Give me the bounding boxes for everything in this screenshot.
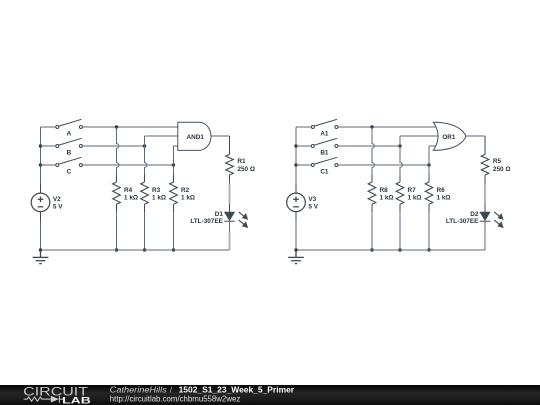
wire R8 bottom lead xyxy=(371,204,373,212)
node R2 to ground rail xyxy=(172,248,175,251)
svg-text:R6: R6 xyxy=(437,187,446,194)
svg-text:B: B xyxy=(67,150,72,157)
resistor R6 1 k&#937; xyxy=(425,182,433,204)
svg-text:CatherineHills: CatherineHills xyxy=(110,386,167,395)
svg-text:R7: R7 xyxy=(408,187,417,194)
svg-text:V3: V3 xyxy=(308,196,316,203)
node R7 to ground rail xyxy=(398,248,401,251)
wire D2 anode lead xyxy=(484,204,486,213)
wire junction up to OR1 input 2 xyxy=(399,136,401,146)
svg-text:5 V: 5 V xyxy=(53,203,63,210)
svg-text:250 Ω: 250 Ω xyxy=(493,166,511,173)
wire rail to switch B1 xyxy=(296,145,311,147)
wire switch A node down to R4 xyxy=(117,127,119,175)
wire R2 top lead xyxy=(173,175,175,183)
wire switch C node down to R2 xyxy=(173,165,175,175)
svg-text:1 kΩ: 1 kΩ xyxy=(437,195,451,202)
wire R3 bottom lead xyxy=(144,204,146,212)
svg-text:D2: D2 xyxy=(470,211,479,218)
switch A xyxy=(56,119,83,128)
wire R3 to ground rail xyxy=(144,212,146,250)
resistor R7 1 k&#937; xyxy=(396,182,404,204)
svg-text:AND1: AND1 xyxy=(186,134,204,141)
wire ground rail bottom xyxy=(41,249,230,251)
wire V2 to ground rail xyxy=(40,222,42,251)
wire R6 top lead xyxy=(428,175,430,183)
wire rail to switch A xyxy=(41,126,56,128)
svg-text:B1: B1 xyxy=(320,150,329,157)
svg-text:1 kΩ: 1 kΩ xyxy=(152,195,166,202)
wire R1 bottom lead xyxy=(229,175,231,184)
wire V3 to ground rail xyxy=(295,222,297,251)
wire left rail V2 top xyxy=(40,127,42,184)
svg-text:A: A xyxy=(67,131,72,138)
node ground rail left junction (dx=0) xyxy=(39,248,42,251)
wire junction up to AND1 input 2 xyxy=(144,136,146,146)
wire R3 top lead xyxy=(144,175,146,183)
resistor R5 250 &#937; xyxy=(481,154,489,175)
resistor R4 1 k&#937; xyxy=(113,182,121,204)
svg-text:R5: R5 xyxy=(493,158,502,165)
svg-text:LTL-307EE: LTL-307EE xyxy=(446,218,479,225)
node R4 to ground rail xyxy=(115,248,118,251)
node switch B / R3 junction xyxy=(143,144,146,147)
wire R6 to ground rail xyxy=(428,212,430,250)
wire R5 top lead xyxy=(484,136,486,154)
wire junction up to AND1 input 3 xyxy=(173,146,175,165)
wire R4 bottom lead xyxy=(116,204,118,212)
LED D1 LTL-307EE xyxy=(224,212,247,227)
footer bar xyxy=(0,385,540,405)
wire R8 to ground rail xyxy=(371,212,373,250)
voltage source V3 5 V xyxy=(287,193,306,212)
switch C1 xyxy=(311,157,338,166)
node left rail row B junction (dx=255.5) xyxy=(294,144,297,147)
wire to AND1 input 3 xyxy=(174,145,179,147)
svg-text:1 kΩ: 1 kΩ xyxy=(380,195,394,202)
LED D2 LTL-307EE xyxy=(480,212,503,227)
switch B xyxy=(56,138,83,147)
resistor R2 1 k&#937; xyxy=(170,182,178,204)
wire R1 top lead xyxy=(229,136,231,154)
wire D2 cathode lead xyxy=(484,221,486,232)
node R6 to ground rail xyxy=(427,248,430,251)
resistor R1 250 &#937; xyxy=(226,154,234,175)
wire V3 positive lead xyxy=(295,184,297,194)
wire AND1 output xyxy=(211,135,230,137)
wire R2 bottom lead xyxy=(173,204,175,212)
wire switch A1 node down to R8 xyxy=(372,127,374,175)
wire R7 to ground rail xyxy=(399,212,401,250)
node switch C1 / R6 junction xyxy=(427,163,430,166)
wire rail to switch B xyxy=(41,145,56,147)
wire D1 anode lead xyxy=(229,204,231,213)
wire rail to switch C1 xyxy=(296,164,311,166)
ground V3 xyxy=(288,250,304,264)
svg-text:1 kΩ: 1 kΩ xyxy=(181,195,195,202)
svg-text:R4: R4 xyxy=(124,187,133,194)
resistor R3 1 k&#937; xyxy=(141,182,149,204)
wire left rail V3 top xyxy=(295,127,297,184)
wire R1 to D1 xyxy=(229,184,231,204)
switch B1 xyxy=(311,138,338,147)
node switch B1 / R7 junction xyxy=(398,144,401,147)
CircuitLab logo schematic glyph xyxy=(24,396,64,403)
wire switch B1 to junction xyxy=(338,145,400,147)
wire D1 to ground rail xyxy=(229,232,231,250)
ground V2 xyxy=(33,250,49,264)
wire V2 positive lead xyxy=(40,184,42,194)
svg-text:C1: C1 xyxy=(320,169,329,176)
wire switch C1 to junction xyxy=(338,164,429,166)
wire to OR1 input 2 xyxy=(400,135,441,137)
wire R7 top lead xyxy=(399,175,401,183)
node R3 to ground rail xyxy=(143,248,146,251)
svg-text:OR1: OR1 xyxy=(442,134,456,141)
node switch C / R2 junction xyxy=(172,163,175,166)
wire switch A to AND1 input 1 xyxy=(83,126,178,128)
node R8 to ground rail xyxy=(370,248,373,251)
node left rail row B junction (dx=0) xyxy=(39,144,42,147)
node ground rail left junction (dx=255.5) xyxy=(294,248,297,251)
svg-text:V2: V2 xyxy=(53,196,61,203)
wire rail to switch C xyxy=(41,164,56,166)
svg-text:R2: R2 xyxy=(181,187,190,194)
wire OR1 output xyxy=(467,135,486,137)
wire switch A1 to OR1 input 1 xyxy=(338,126,441,128)
svg-text:1502_S1_23_Week_5_Primer: 1502_S1_23_Week_5_Primer xyxy=(179,386,295,395)
wire R7 bottom lead xyxy=(399,204,401,212)
wire rail to switch A1 xyxy=(296,126,311,128)
node switch A / R4 junction xyxy=(115,125,118,128)
wire switch C to junction xyxy=(83,164,174,166)
wire R6 bottom lead xyxy=(428,204,430,212)
wire junction up to OR1 input 3 xyxy=(428,146,430,165)
svg-text:A1: A1 xyxy=(320,131,329,138)
svg-text:LAB: LAB xyxy=(62,395,91,405)
svg-text:D1: D1 xyxy=(215,211,224,218)
switch A1 xyxy=(311,119,338,128)
wire R8 top lead xyxy=(371,175,373,183)
wire R2 to ground rail xyxy=(173,212,175,250)
resistor R8 1 k&#937; xyxy=(368,182,376,204)
svg-text:5 V: 5 V xyxy=(308,203,318,210)
wire switch B1 node down to R7 xyxy=(400,146,402,175)
voltage source V2 5 V xyxy=(31,193,50,212)
wire to AND1 input 2 xyxy=(145,135,178,137)
wire D1 cathode lead xyxy=(229,221,231,232)
wire switch B node down to R3 xyxy=(145,146,147,175)
switch C xyxy=(56,157,83,166)
svg-text:R8: R8 xyxy=(380,187,389,194)
wire R4 top lead xyxy=(116,175,118,183)
node left rail row C junction (dx=0) xyxy=(39,163,42,166)
AND gate AND1 xyxy=(178,122,211,150)
wire R5 bottom lead xyxy=(484,175,486,184)
svg-text:C: C xyxy=(67,169,72,176)
node left rail row C junction (dx=255.5) xyxy=(294,163,297,166)
wire R4 to ground rail xyxy=(116,212,118,250)
wire ground rail bottom xyxy=(296,249,485,251)
svg-text:LTL-307EE: LTL-307EE xyxy=(190,218,223,225)
wire to OR1 input 3 xyxy=(429,145,441,147)
svg-text:250 Ω: 250 Ω xyxy=(237,166,255,173)
svg-text:R1: R1 xyxy=(237,158,246,165)
wire R5 to D2 xyxy=(484,184,486,204)
svg-text:1 kΩ: 1 kΩ xyxy=(124,195,138,202)
wire V2 negative lead xyxy=(40,212,42,222)
svg-text:1 kΩ: 1 kΩ xyxy=(408,195,422,202)
svg-text:R3: R3 xyxy=(152,187,161,194)
wire switch C1 node down to R6 xyxy=(428,165,430,175)
OR gate OR1 xyxy=(433,122,466,150)
wire V3 negative lead xyxy=(295,212,297,222)
wire switch B to junction xyxy=(83,145,145,147)
svg-text:http://circuitlab.com/chbmu558: http://circuitlab.com/chbmu558w2wez xyxy=(110,395,241,404)
node switch A1 / R8 junction xyxy=(370,125,373,128)
wire D2 to ground rail xyxy=(484,232,486,250)
